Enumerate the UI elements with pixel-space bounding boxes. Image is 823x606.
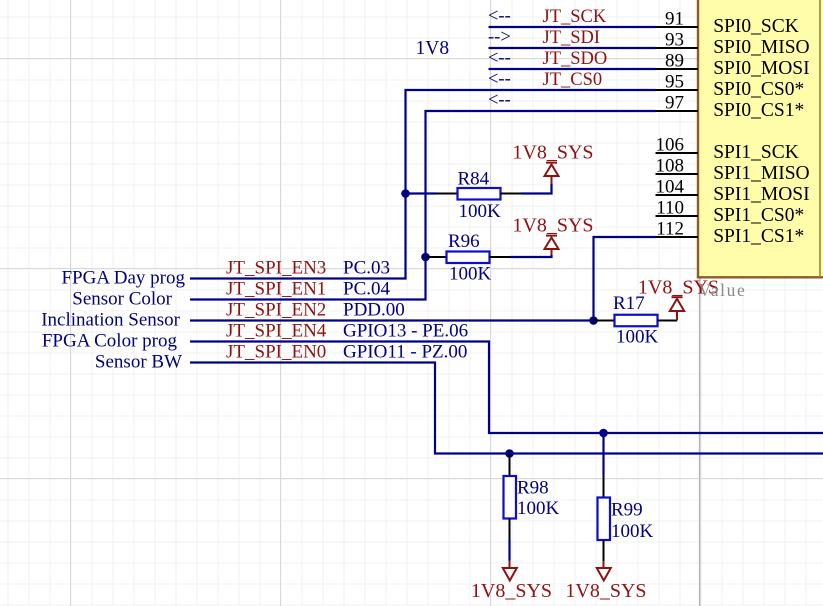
svg-text:100K: 100K — [517, 498, 560, 519]
wire EN2 row to R17 junction — [190, 319, 594, 321]
wire pin 97 to vertical and port row EN1 — [190, 111, 656, 300]
svg-text:<--: <-- — [488, 91, 511, 111]
pin 104 SPI1_MOSI — [656, 177, 810, 206]
svg-text:106: 106 — [656, 135, 685, 156]
wire JT_SCK (pin 91 stub) — [489, 26, 656, 28]
wire R98 down to power — [508, 540, 510, 561]
svg-text:JT_SPI_EN1: JT_SPI_EN1 — [226, 279, 326, 300]
svg-text:100K: 100K — [459, 201, 502, 222]
svg-text:<--: <-- — [488, 70, 511, 90]
svg-text:PC.03: PC.03 — [343, 258, 390, 279]
svg-text:91: 91 — [665, 9, 684, 30]
svg-text:Sensor Color: Sensor Color — [72, 289, 172, 310]
svg-text:Sensor BW: Sensor BW — [95, 352, 182, 373]
pin 93 SPI0_MISO — [656, 30, 810, 59]
svg-text:PC.04: PC.04 — [343, 279, 390, 300]
svg-text:SPI1_MISO: SPI1_MISO — [713, 163, 809, 184]
svg-text:SPI0_CS0*: SPI0_CS0* — [713, 79, 804, 100]
svg-text:JT_SPI_EN0: JT_SPI_EN0 — [226, 342, 326, 363]
svg-text:95: 95 — [665, 72, 684, 93]
svg-text:SPI1_MOSI: SPI1_MOSI — [713, 184, 809, 205]
pin 91 SPI0_SCK — [656, 9, 799, 38]
svg-text:SPI0_MOSI: SPI0_MOSI — [713, 58, 809, 79]
pin 97 SPI0_CS1* — [656, 93, 805, 122]
wire JT_CS0 (pin 95 to vertical and port row EN3) — [190, 90, 656, 279]
svg-text:Inclination Sensor: Inclination Sensor — [41, 310, 180, 331]
svg-text:JT_SCK: JT_SCK — [543, 7, 607, 27]
svg-text:FPGA Color prog: FPGA Color prog — [42, 331, 178, 352]
pin 110 SPI1_CS0* — [656, 198, 805, 227]
svg-text:JT_SPI_EN4: JT_SPI_EN4 — [226, 321, 327, 342]
wire EN4 row down and right to edge — [190, 342, 823, 434]
wire JT_SDO (pin 89 stub) — [489, 68, 656, 70]
svg-text:SPI1_CS1*: SPI1_CS1* — [713, 226, 804, 247]
svg-text:1V8: 1V8 — [416, 38, 450, 59]
svg-text:JT_SPI_EN3: JT_SPI_EN3 — [226, 258, 326, 279]
pin 108 SPI1_MISO — [656, 156, 810, 185]
svg-text:93: 93 — [665, 30, 684, 51]
resistor R98 — [504, 454, 560, 540]
svg-text:R96: R96 — [448, 231, 480, 252]
power port 1V8_SYS (R96) — [512, 215, 593, 255]
resistor R99 — [598, 477, 654, 562]
svg-text:89: 89 — [665, 51, 684, 72]
junction at R98 tap — [505, 449, 514, 458]
wire R84 left tap — [406, 192, 437, 194]
junction at R84 tap — [401, 189, 410, 198]
pin 89 SPI0_MOSI — [656, 51, 810, 80]
resistor R96 — [427, 231, 511, 285]
svg-text:PDD.00: PDD.00 — [343, 300, 405, 321]
svg-text:GPIO11 - PZ.00: GPIO11 - PZ.00 — [343, 342, 467, 363]
svg-text:108: 108 — [656, 156, 685, 177]
pin 106 SPI1_SCK — [656, 135, 799, 164]
wire R99 down from junction — [602, 433, 604, 477]
power port 1V8_SYS (R84) — [512, 142, 593, 184]
svg-text:97: 97 — [665, 93, 684, 114]
svg-text:JT_SDO: JT_SDO — [543, 49, 608, 69]
resistor R17 — [594, 293, 678, 348]
svg-text:R84: R84 — [458, 169, 490, 190]
svg-text:SPI0_SCK: SPI0_SCK — [713, 16, 799, 37]
svg-text:110: 110 — [656, 198, 684, 219]
svg-text:100K: 100K — [449, 264, 492, 285]
power port 1V8_SYS (R17) — [638, 277, 719, 321]
svg-text:1V8_SYS: 1V8_SYS — [471, 580, 552, 602]
pin 112 SPI1_CS1* — [656, 219, 805, 248]
svg-text:R99: R99 — [611, 500, 643, 521]
svg-text:100K: 100K — [611, 521, 654, 542]
junction at R96 tap — [421, 253, 430, 262]
sheet partition line below IC — [699, 279, 701, 606]
IC U1 (partial SPI pin bank, yellow body) — [697, 0, 823, 278]
svg-text:<--: <-- — [488, 49, 511, 69]
resistor R84 — [437, 169, 522, 223]
svg-text:<--: <-- — [488, 7, 511, 27]
svg-text:1V8_SYS: 1V8_SYS — [565, 580, 646, 602]
svg-text:-->: --> — [488, 28, 511, 48]
svg-text:SPI0_MISO: SPI0_MISO — [713, 37, 809, 58]
wire EN0 row down and right to edge — [190, 363, 823, 454]
wire R84 right to power — [522, 184, 552, 194]
svg-text:GPIO13 - PE.06: GPIO13 - PE.06 — [343, 321, 468, 342]
svg-text:SPI1_SCK: SPI1_SCK — [713, 142, 799, 163]
power port 1V8_SYS (R99, down) — [565, 561, 646, 602]
svg-text:FPGA Day prog: FPGA Day prog — [61, 268, 185, 289]
svg-text:104: 104 — [656, 177, 685, 198]
svg-text:Value: Value — [699, 280, 747, 300]
svg-text:112: 112 — [656, 219, 684, 240]
svg-text:R98: R98 — [517, 478, 549, 499]
wire JT_SDI (pin 93 stub) — [489, 47, 656, 49]
svg-text:JT_CS0: JT_CS0 — [543, 70, 603, 90]
junction at R17 tap — [589, 316, 598, 325]
svg-text:1V8_SYS: 1V8_SYS — [512, 215, 593, 237]
svg-text:SPI0_CS1*: SPI0_CS1* — [713, 100, 804, 121]
svg-text:1V8_SYS: 1V8_SYS — [512, 142, 593, 164]
power port 1V8_SYS (R98, down) — [471, 561, 552, 603]
svg-text:JT_SPI_EN2: JT_SPI_EN2 — [226, 300, 326, 321]
svg-text:SPI1_CS0*: SPI1_CS0* — [713, 205, 804, 226]
wire pin 112 down to R17 row — [594, 237, 656, 321]
pin 95 SPI0_CS0* — [656, 72, 805, 101]
svg-text:100K: 100K — [616, 327, 659, 348]
wire R96 right to power — [511, 255, 552, 257]
svg-text:JT_SDI: JT_SDI — [543, 28, 601, 48]
junction at R99 tap — [599, 429, 608, 438]
